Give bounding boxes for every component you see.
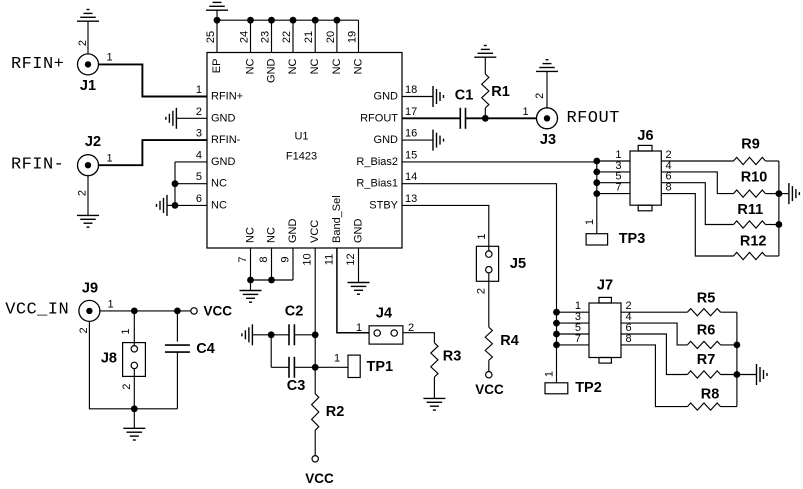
resistor R6 <box>621 323 687 345</box>
svg-text:17: 17 <box>405 106 417 118</box>
sideways ground left of C2 <box>251 324 253 345</box>
svg-text:GND: GND <box>374 134 399 146</box>
wire C1 to J3 <box>466 117 538 119</box>
svg-text:2: 2 <box>475 288 487 294</box>
junction dots R6,R7 bus <box>734 342 741 349</box>
svg-text:NC: NC <box>309 58 321 74</box>
svg-text:R1: R1 <box>491 84 510 100</box>
wire U1 pin 18 to ground <box>402 96 433 98</box>
svg-text:TP1: TP1 <box>367 359 394 375</box>
svg-text:13: 13 <box>405 193 417 205</box>
wire to TP1 <box>315 366 348 368</box>
svg-text:VCC: VCC <box>305 471 334 486</box>
svg-text:GND: GND <box>353 219 365 244</box>
svg-text:1: 1 <box>543 371 555 377</box>
svg-text:C2: C2 <box>285 304 304 320</box>
svg-text:NC: NC <box>331 58 343 74</box>
resistor R2 <box>314 367 316 393</box>
resistor R10 <box>661 172 733 194</box>
svg-text:15: 15 <box>405 149 417 161</box>
wire U1 pin 10 VCC column <box>314 248 316 367</box>
svg-text:2: 2 <box>78 327 90 333</box>
svg-text:12: 12 <box>345 253 357 265</box>
connector J9 <box>79 300 100 321</box>
svg-text:TP2: TP2 <box>575 380 602 396</box>
wire R3 to ground <box>433 377 435 398</box>
svg-text:J1: J1 <box>80 78 96 94</box>
svg-text:24: 24 <box>239 31 251 43</box>
test point TP2 <box>545 383 568 394</box>
svg-text:9: 9 <box>280 256 292 262</box>
svg-text:GND: GND <box>211 156 236 168</box>
svg-text:8: 8 <box>258 256 270 262</box>
svg-text:C1: C1 <box>455 88 474 104</box>
wire top rail connecting pins 25-19 <box>217 19 359 21</box>
svg-text:R5: R5 <box>697 291 716 307</box>
sideways ground at pin 18 <box>432 86 434 107</box>
svg-text:5: 5 <box>196 171 202 183</box>
svg-text:4: 4 <box>196 149 202 161</box>
VCC terminal right of J9 <box>191 308 197 314</box>
wire J8 pin 2 down <box>133 369 135 409</box>
resistor R8 <box>621 345 687 407</box>
wire C3 to pin10 column <box>294 366 315 368</box>
svg-text:NC: NC <box>211 199 227 211</box>
svg-text:EP: EP <box>211 59 223 74</box>
ground below J2 <box>77 214 99 216</box>
svg-text:J3: J3 <box>540 132 556 148</box>
svg-text:1: 1 <box>108 299 114 311</box>
svg-text:C3: C3 <box>287 378 306 394</box>
wire U1 pin 15 to J6 <box>402 161 597 163</box>
capacitor C1 <box>459 108 461 129</box>
svg-text:2: 2 <box>121 384 133 390</box>
wire J6 input column <box>596 161 598 234</box>
svg-text:J9: J9 <box>82 281 98 297</box>
svg-text:20: 20 <box>325 31 337 43</box>
wire to J8 pin 1 <box>133 311 135 346</box>
svg-text:VCC: VCC <box>204 303 233 318</box>
sideways ground at R7 bus <box>737 374 757 376</box>
svg-text:8: 8 <box>666 182 672 194</box>
svg-text:R2: R2 <box>326 404 345 420</box>
svg-text:1: 1 <box>356 322 362 334</box>
ground above J1 <box>77 20 99 22</box>
svg-text:11: 11 <box>323 254 335 265</box>
svg-text:R4: R4 <box>500 333 519 349</box>
junction dot bottom rail <box>131 405 138 412</box>
wire ground to C2 <box>252 334 289 336</box>
wire J2 pin2 to ground <box>87 176 89 216</box>
wire down to C3 <box>270 335 272 368</box>
svg-text:R10: R10 <box>741 170 768 186</box>
wire J1 to U1 pin 1 RFIN+ <box>98 64 207 96</box>
svg-text:VCC_IN: VCC_IN <box>5 301 69 320</box>
resistor R4 <box>485 327 492 360</box>
wire J1 pin2 to ground <box>87 21 89 54</box>
svg-text:U1: U1 <box>294 131 308 143</box>
svg-text:R8: R8 <box>701 387 720 403</box>
VCC terminal under R2 <box>312 456 318 462</box>
svg-text:22: 22 <box>281 31 293 43</box>
svg-text:R3: R3 <box>443 349 462 365</box>
wire U1 pins 7,8,9 tie <box>250 248 252 280</box>
svg-text:3: 3 <box>196 128 202 140</box>
svg-text:7: 7 <box>237 256 249 262</box>
junction dots J7 pins 1,3,5,7 <box>553 309 560 316</box>
wire U1 pin 14 to J7 <box>402 184 557 313</box>
junction dot C2 left <box>268 331 275 338</box>
svg-text:NC: NC <box>211 178 227 190</box>
wire J9 pin 2 down and bottom rail <box>89 321 177 409</box>
wire C2 to pin10 column <box>294 334 315 336</box>
svg-text:1: 1 <box>106 152 112 164</box>
svg-text:VCC: VCC <box>309 220 321 243</box>
svg-text:10: 10 <box>302 253 314 265</box>
svg-text:J4: J4 <box>376 306 392 322</box>
ground below pin 7 <box>250 280 252 291</box>
svg-text:16: 16 <box>405 128 417 140</box>
svg-text:NC: NC <box>353 58 365 74</box>
connector J6 body <box>630 151 661 205</box>
capacitor C3 <box>288 357 290 378</box>
ground above J3 <box>536 70 558 72</box>
wire U1 pin 13 to J5 <box>402 205 489 250</box>
sideways ground at pin 16 <box>432 130 434 151</box>
capacitor C4 <box>176 311 178 342</box>
sideways ground at U1 pin 6 <box>166 195 168 216</box>
svg-text:23: 23 <box>260 31 272 43</box>
wire U1 pins 4,5,6 tie <box>174 162 176 206</box>
junction dot C3 right <box>312 364 319 371</box>
svg-text:7: 7 <box>575 333 581 345</box>
wire J7 input column <box>556 312 558 383</box>
junction dots pins 7,8 <box>247 277 254 284</box>
connector J3 <box>537 108 558 129</box>
svg-text:7: 7 <box>615 182 621 194</box>
svg-text:2: 2 <box>196 106 202 118</box>
connector J5 <box>476 246 498 281</box>
svg-text:8: 8 <box>626 333 632 345</box>
svg-text:J7: J7 <box>597 278 613 294</box>
svg-text:TP3: TP3 <box>619 231 646 247</box>
test point TP1 <box>348 355 360 377</box>
svg-text:2: 2 <box>534 93 546 99</box>
svg-text:1: 1 <box>334 353 340 365</box>
wire R5-R8 bus <box>736 312 738 406</box>
junction dots R10,R11 bus <box>776 190 783 197</box>
svg-text:RFIN-: RFIN- <box>211 134 241 146</box>
svg-text:1: 1 <box>120 328 132 334</box>
connector J7 body <box>589 303 621 358</box>
connector J2 <box>78 155 99 176</box>
sideways ground at U1 pin 2 <box>175 108 177 129</box>
svg-text:R6: R6 <box>697 323 716 339</box>
resistor R1 <box>484 108 486 118</box>
svg-text:NC: NC <box>266 227 278 243</box>
wire U1 pin 12 to ground <box>358 248 360 283</box>
resistor R7 <box>621 334 687 375</box>
resistor R9 <box>661 160 733 162</box>
svg-text:14: 14 <box>405 171 417 183</box>
svg-text:F1423: F1423 <box>286 151 317 163</box>
ground at EP pin 25 top <box>206 9 228 11</box>
svg-text:R_Bias2: R_Bias2 <box>356 156 398 168</box>
svg-text:19: 19 <box>347 31 359 43</box>
wire J2 to U1 pin 3 RFIN- <box>98 140 207 165</box>
wire R4 to VCC <box>488 360 490 371</box>
svg-text:R9: R9 <box>741 136 760 152</box>
wire R9-R12 bus <box>778 161 780 256</box>
connector J8 <box>123 343 146 377</box>
resistor R5 <box>621 311 687 313</box>
svg-text:J2: J2 <box>85 134 101 150</box>
wire J3 pin2 to ground <box>546 71 548 107</box>
svg-text:RFIN+: RFIN+ <box>211 91 243 103</box>
resistor R11 <box>661 183 733 225</box>
svg-text:GND: GND <box>287 219 299 244</box>
svg-text:GND: GND <box>374 91 399 103</box>
svg-text:25: 25 <box>205 31 217 43</box>
wire J4 to R3 <box>403 333 435 343</box>
junction dots J6 pins 1,3,5,7 <box>593 158 600 165</box>
svg-text:1: 1 <box>106 52 112 64</box>
svg-text:RFIN+: RFIN+ <box>11 55 64 74</box>
svg-text:R11: R11 <box>737 202 763 218</box>
svg-text:R_Bias1: R_Bias1 <box>356 178 398 190</box>
sideways ground at R10 bus <box>779 193 789 195</box>
connector J1 <box>78 54 99 75</box>
resistor R12 <box>661 194 733 256</box>
IC U1 F1423 body <box>207 53 402 249</box>
svg-text:J5: J5 <box>510 256 526 272</box>
svg-text:R7: R7 <box>697 352 716 368</box>
svg-text:1: 1 <box>196 84 202 96</box>
svg-text:1: 1 <box>476 234 488 240</box>
wire U1 pin 11 Band_Sel to J4 <box>337 248 369 333</box>
svg-text:NC: NC <box>245 227 257 243</box>
junction dots on top rail <box>214 17 221 24</box>
wire U1 pin 17 RFOUT to C1 <box>402 117 460 119</box>
svg-text:NC: NC <box>245 58 257 74</box>
resistor R3 <box>431 343 438 377</box>
test point TP3 <box>586 234 608 245</box>
ground below R3 <box>423 397 445 399</box>
ground below pin 12 <box>348 282 370 284</box>
svg-text:2: 2 <box>77 40 89 46</box>
svg-text:VCC: VCC <box>475 382 504 397</box>
wire J5 to R4 <box>488 273 490 327</box>
ground below J8 rail <box>133 409 135 429</box>
svg-text:1: 1 <box>523 106 529 118</box>
svg-text:Band_Sel: Band_Sel <box>331 195 343 243</box>
svg-text:RFIN-: RFIN- <box>11 156 64 175</box>
wire U1 pin 16 to ground <box>402 139 433 141</box>
svg-text:1: 1 <box>584 219 596 225</box>
wire pin2 GND <box>176 117 207 119</box>
svg-text:RFOUT: RFOUT <box>360 112 398 124</box>
svg-text:NC: NC <box>287 58 299 74</box>
svg-text:GND: GND <box>211 112 236 124</box>
svg-text:2: 2 <box>77 190 89 196</box>
svg-text:RFOUT: RFOUT <box>567 109 620 128</box>
junction dot C2 right <box>312 331 319 338</box>
connector J4 <box>369 326 403 344</box>
junction dots on VCC_IN rail <box>131 308 138 315</box>
wire J9 to VCC <box>99 310 190 312</box>
svg-text:18: 18 <box>405 84 417 96</box>
svg-text:21: 21 <box>303 31 315 43</box>
svg-text:GND: GND <box>266 58 278 83</box>
junction dots pins 5,6 <box>172 180 179 187</box>
svg-text:J8: J8 <box>101 351 117 367</box>
svg-text:J6: J6 <box>637 128 653 144</box>
svg-text:R12: R12 <box>740 234 767 250</box>
junction dot at R1 <box>482 115 489 122</box>
svg-text:6: 6 <box>196 193 202 205</box>
ground above R1 <box>474 56 496 58</box>
svg-text:C4: C4 <box>196 341 215 357</box>
svg-text:STBY: STBY <box>369 199 398 211</box>
VCC terminal under R4 <box>486 372 492 378</box>
capacitor C2 <box>288 324 290 345</box>
